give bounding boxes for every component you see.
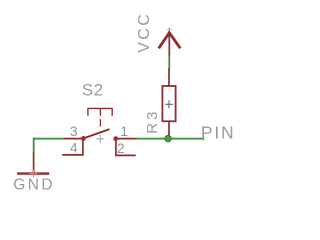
wire from switch pin 1 to node PIN [136,138,204,140]
junction node dot [165,135,171,141]
svg-text:3: 3 [70,123,78,139]
switch S2 lever [83,129,109,138]
switch S2 origin cross [96,135,103,143]
switch S2 pin 3 contact dot [81,136,86,141]
svg-text:4: 4 [70,139,78,155]
switch S2 pin 2 lead hook [116,140,136,156]
wire from VCC symbol to resistor R3 [168,54,170,70]
wire left horizontal net segment to switch pin 3 [34,138,65,140]
svg-text:R3: R3 [144,109,161,134]
switch S2 pin 4 lead hook [62,140,83,155]
resistor R3 [162,68,175,136]
svg-text:1: 1 [120,123,128,139]
svg-text:PIN: PIN [201,123,236,143]
node marker cross above VCC arrow [167,28,172,32]
wire vertical net segment down to ground [33,138,35,153]
svg-text:2: 2 [117,140,125,156]
switch S2 dashed actuator link [99,108,101,126]
switch S2 pin 3 lead [64,138,82,140]
svg-text:GND: GND [13,176,55,193]
wire end cross at PIN [203,136,205,140]
switch S2 actuator bracket [88,108,112,115]
switch S2 pin 1 lead [117,138,137,140]
switch S2 pin 1 contact dot [113,136,118,141]
ground symbol [17,152,49,178]
svg-text:S2: S2 [82,81,104,100]
svg-text:VCC: VCC [136,12,153,53]
power symbol VCC [159,32,181,55]
